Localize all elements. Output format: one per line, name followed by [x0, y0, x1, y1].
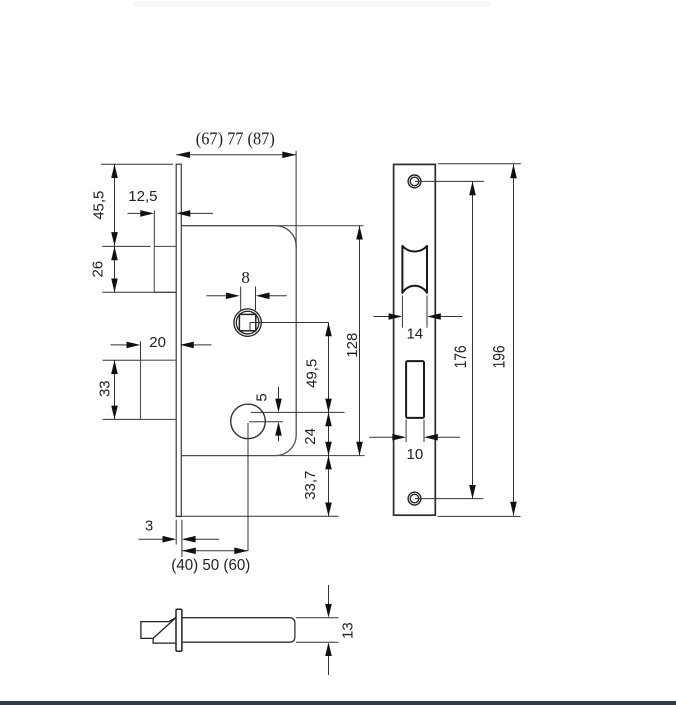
svg-text:128: 128: [344, 333, 361, 358]
svg-text:12,5: 12,5: [128, 188, 157, 205]
svg-text:10: 10: [407, 446, 424, 463]
svg-text:49,5: 49,5: [303, 359, 320, 388]
svg-text:26: 26: [89, 261, 106, 278]
dim 5: [278, 387, 280, 442]
dim 33,7: [328, 456, 330, 517]
spindle square hole: [239, 314, 255, 330]
cylinder centre vertical line: [247, 423, 249, 551]
lower protrusion (cylinder housing): [141, 360, 177, 419]
dim (40) 50 (60) backset: [182, 550, 248, 552]
svg-text:5: 5: [254, 393, 271, 401]
cylinder centre line: [249, 421, 283, 423]
spindle circle outer: [234, 309, 261, 336]
upper protrusion (follower housing): [154, 246, 176, 292]
spindle circle inner: [236, 311, 259, 334]
dim 196: [438, 164, 521, 517]
top faint header bar: [134, 2, 490, 8]
dim (67) 77 (87) line: [176, 151, 296, 247]
reference line 49,5 below spindle: [251, 411, 345, 413]
dim 24: [328, 412, 330, 455]
dim 13: [296, 585, 339, 675]
latch cutout: [402, 246, 427, 293]
svg-text:33: 33: [97, 380, 114, 397]
dim 14: [374, 296, 463, 328]
svg-text:24: 24: [302, 428, 319, 445]
dim (67) 77 (87) arrowheads: [176, 152, 296, 159]
svg-text:14: 14: [406, 326, 423, 343]
svg-text:8: 8: [241, 268, 250, 287]
svg-text:33,7: 33,7: [302, 471, 319, 500]
dim 176: [415, 181, 484, 498]
svg-text:45,5: 45,5: [90, 191, 107, 220]
dim 128: [359, 226, 361, 456]
svg-text:(40) 50 (60): (40) 50 (60): [171, 557, 250, 574]
dim 20: [111, 341, 212, 359]
bottom screw hole: [408, 492, 421, 505]
svg-text:196: 196: [489, 345, 508, 368]
svg-text:176: 176: [451, 345, 470, 368]
faceplate bottom view capsule: [176, 609, 182, 651]
svg-text:(67) 77 (87): (67) 77 (87): [196, 128, 275, 148]
dim 10: [369, 420, 460, 443]
bottom dark footer bar: [0, 701, 676, 705]
lock case outline: [182, 226, 297, 456]
dim 12,5: [128, 210, 214, 246]
spindle centre reference line: [250, 322, 329, 324]
svg-text:20: 20: [149, 334, 166, 351]
faceplate edge view: [176, 164, 181, 516]
svg-text:3: 3: [145, 518, 153, 535]
svg-text:13: 13: [339, 622, 356, 639]
spindle centre vertical tick: [249, 323, 251, 331]
dim 33: [103, 360, 141, 419]
case top edge extension: [276, 225, 364, 227]
dim 8: [206, 287, 286, 311]
faceplate bottom extension line: [176, 515, 338, 517]
top screw hole: [408, 175, 421, 188]
dim 3: [139, 520, 220, 557]
cylinder hole circle: [231, 404, 266, 439]
case bottom edge extension: [276, 455, 365, 457]
dim 26: [102, 246, 176, 292]
dim 45,5: [101, 164, 173, 246]
dim 49,5: [328, 323, 330, 413]
latch bolt bottom view: [141, 618, 176, 644]
faceplate front outline: [394, 164, 436, 515]
deadbolt cutout: [406, 361, 424, 418]
case bottom view: [182, 618, 295, 643]
